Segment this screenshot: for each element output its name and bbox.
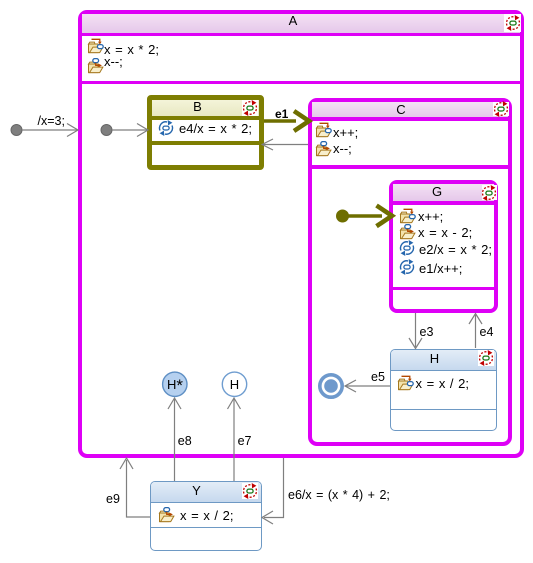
state B internal transition: e4/x = x * 2;: [158, 120, 175, 137]
state C: [308, 98, 513, 447]
deep history connector H*: [163, 372, 187, 396]
transition e5 arrowhead: [345, 380, 356, 392]
state G name: [393, 185, 481, 198]
label e3: [420, 326, 434, 339]
state B header: [152, 100, 259, 120]
state G header: [393, 184, 494, 205]
state Y exit action: x = x / 2;: [158, 507, 175, 524]
transition e6 arrowhead: [262, 511, 273, 524]
label e6: [288, 489, 390, 502]
state Y name: [151, 484, 242, 497]
default transition to G: wire: [342, 214, 382, 218]
label /x=3;: [38, 115, 65, 128]
state Y: [150, 481, 262, 551]
transition e8 Y to deep history: wire: [174, 399, 176, 482]
shallow history connector H: [222, 372, 246, 396]
label e8: [178, 435, 192, 448]
transition e7 Y to history: wire: [233, 399, 235, 482]
state B name: [152, 100, 243, 113]
state H actions compartment: [391, 371, 496, 410]
history label: [223, 378, 247, 391]
state C entry action: x++;: [315, 122, 332, 139]
termination connector: [320, 375, 342, 397]
default transition to B: source blob: [101, 125, 112, 136]
state A entry action: x = x * 2;: [87, 38, 104, 55]
state C name: [311, 103, 491, 116]
transition e4 H to G: wire: [475, 315, 477, 348]
state H name: [391, 352, 478, 365]
state A: [78, 10, 524, 458]
transition e4 arrowhead: [469, 314, 482, 325]
state C actions compartment: [312, 121, 509, 169]
default transition to A: wire: [22, 129, 77, 131]
transition e1 arrowhead: [294, 111, 309, 131]
state Y reaction icon: [242, 483, 258, 499]
transition e1 B to C: wire: [264, 119, 296, 123]
state B (highlighted): [147, 95, 264, 170]
transition e8 arrowhead: [168, 398, 181, 409]
default transition to B: wire: [112, 129, 147, 131]
state B internal transition compartment: [152, 120, 259, 145]
transition e3 arrowhead: [409, 338, 422, 349]
state C reaction icon: [493, 102, 509, 116]
transition C to B: wire: [263, 144, 308, 146]
state H header: [391, 350, 496, 371]
label e7: [238, 435, 252, 448]
state G actions compartment: [393, 205, 494, 291]
state Y header: [151, 482, 261, 503]
transition e7 arrowhead: [228, 398, 241, 409]
state G entry action: x++;: [399, 208, 416, 225]
state G internal transition: e2/x = x * 2;: [399, 240, 416, 257]
state A actions compartment: [82, 36, 520, 84]
default transition to G: source blob: [337, 210, 349, 222]
transition C to B: arrowhead: [262, 139, 273, 150]
label e1: [275, 108, 288, 121]
default transition to A: source blob: [11, 125, 22, 136]
default transition to A: arrowhead: [67, 124, 78, 137]
deep history label: [163, 378, 187, 392]
state C exit action: x--;: [315, 141, 332, 158]
label e4: [480, 326, 494, 339]
state G internal transition: e1/x++;: [399, 259, 416, 276]
state A exit action: x--;: [87, 58, 104, 75]
state B reaction icon: [242, 100, 258, 116]
state A name: [83, 14, 503, 27]
default transition to B: arrowhead: [137, 124, 148, 137]
state G: [389, 180, 498, 313]
label e5: [371, 371, 385, 384]
state G exit action: x = x - 2;: [399, 224, 416, 241]
state Y actions compartment: [151, 503, 261, 528]
default transition to G: arrowhead: [377, 206, 393, 227]
label e9: [106, 493, 120, 506]
state H: [390, 349, 497, 432]
state C header: [312, 102, 509, 121]
transition e9 arrowhead: [120, 458, 133, 469]
state G reaction icon: [482, 185, 498, 200]
transition e3 G to H: wire: [415, 313, 417, 347]
state A header: [82, 14, 520, 36]
state A reaction icon: [504, 14, 521, 32]
transition e6 A to Y: wire: [264, 458, 284, 518]
state H reaction icon: [478, 350, 494, 366]
transition e9 Y to A: wire: [127, 460, 151, 517]
transition e5 H to termination: wire: [346, 385, 390, 387]
state H entry action: x = x / 2;: [397, 375, 414, 392]
